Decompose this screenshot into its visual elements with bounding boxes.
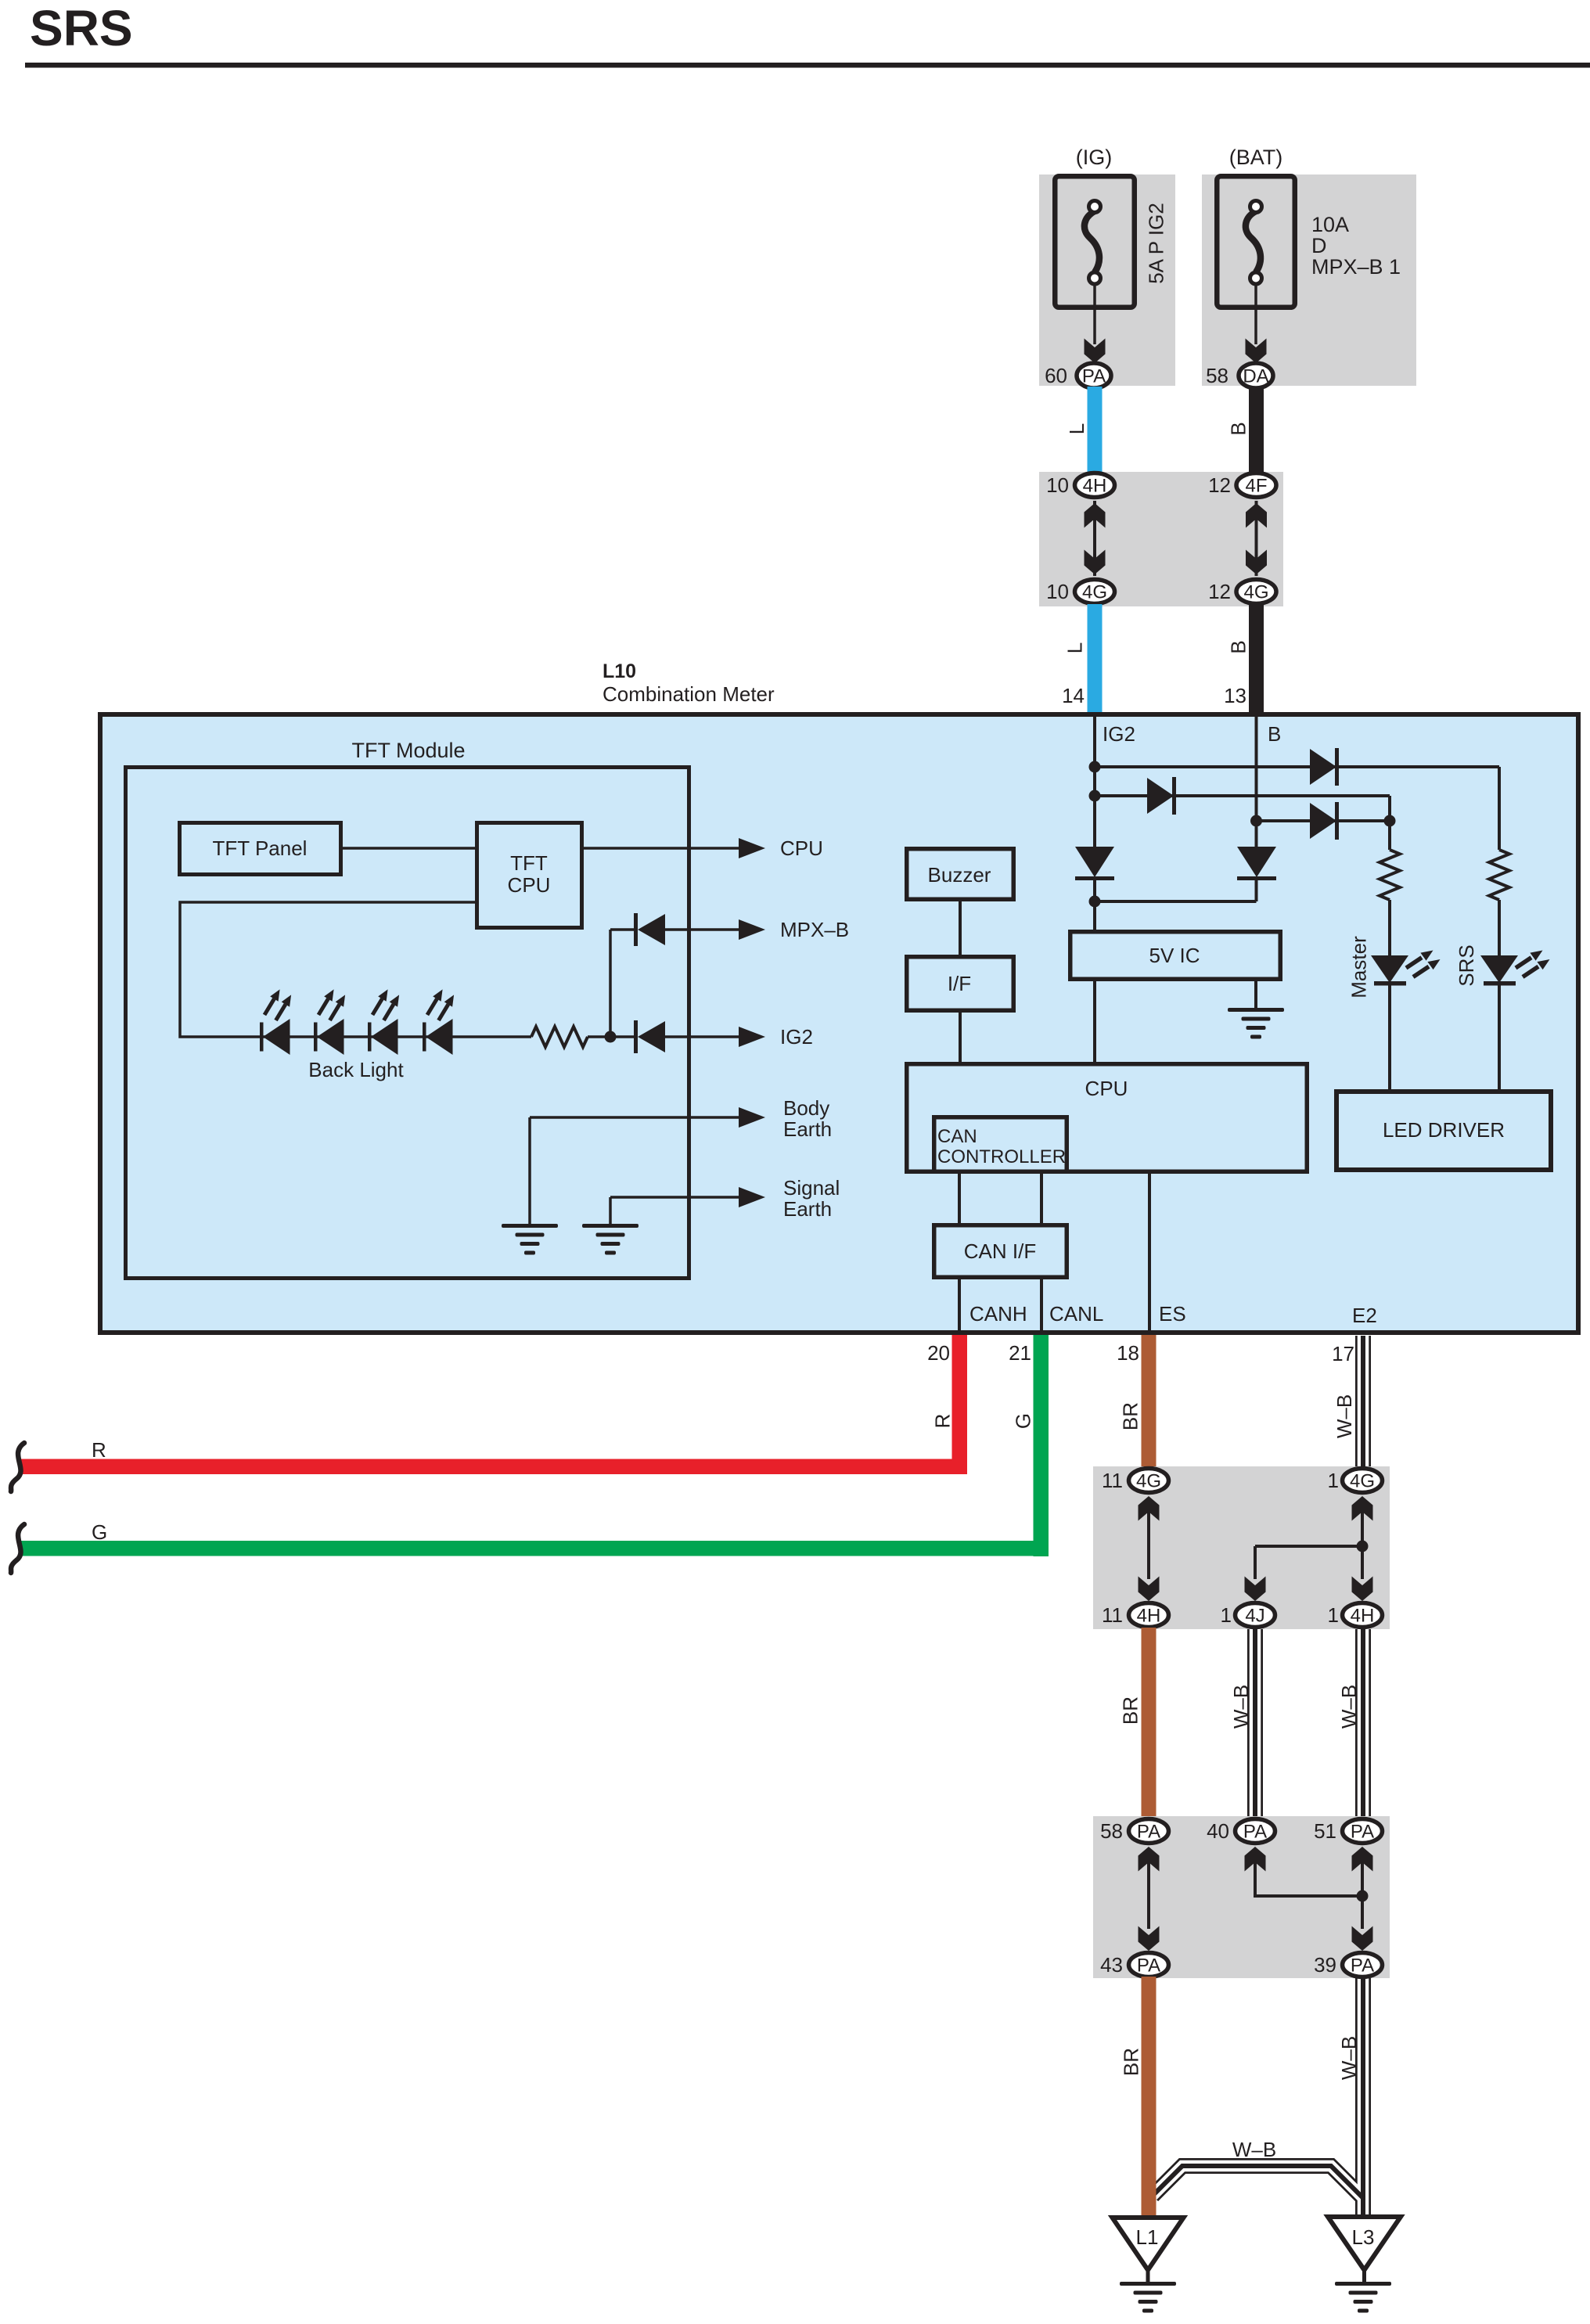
arrow up into 4G left	[1139, 1496, 1160, 1521]
connector 4J	[1236, 1603, 1275, 1628]
diode IG2 rail	[1075, 847, 1114, 877]
svg-text:43: 43	[1100, 1953, 1123, 1977]
svg-text:11: 11	[1102, 1469, 1123, 1492]
branch PA 40	[1255, 1861, 1362, 1896]
backlight LED D3	[368, 1023, 372, 1052]
svg-text:BR: BR	[1120, 2048, 1143, 2076]
wire backlight LED chain	[263, 1035, 531, 1038]
svg-text:1: 1	[1328, 1469, 1339, 1492]
svg-text:21: 21	[1009, 1341, 1031, 1365]
arrow down into 4G right	[1246, 550, 1267, 575]
svg-text:18: 18	[1117, 1341, 1139, 1365]
ground body earth	[502, 1224, 558, 1228]
svg-text:1: 1	[1328, 1603, 1339, 1627]
svg-text:B: B	[1227, 640, 1250, 653]
wire resistor to IG2 diode	[588, 1035, 635, 1038]
svg-text:4H: 4H	[1137, 1606, 1161, 1627]
svg-text:W–B: W–B	[1333, 1394, 1356, 1438]
connector 4G left	[1075, 580, 1115, 604]
svg-text:W–B: W–B	[1232, 2138, 1276, 2161]
node B	[1250, 815, 1262, 827]
svg-text:4F: 4F	[1245, 476, 1267, 497]
svg-text:40: 40	[1207, 1819, 1229, 1843]
buzzer box	[907, 849, 1014, 900]
svg-text:58: 58	[1206, 364, 1228, 387]
wire IG2 internal	[1093, 713, 1096, 850]
svg-text:L1: L1	[1136, 2225, 1159, 2249]
arrow up into 4G right	[1352, 1496, 1373, 1521]
svg-text:12: 12	[1208, 473, 1231, 497]
connector DA	[1239, 363, 1273, 388]
wire IG2 diode to 5V IC	[1093, 880, 1096, 931]
node IG2 upper	[1089, 761, 1101, 773]
diode to MPX-B	[634, 913, 638, 946]
wire BR PA to L1	[1142, 1977, 1157, 2219]
arrow Signal Earth	[739, 1187, 765, 1207]
CPU box	[907, 1064, 1308, 1172]
connector 4G mid-right	[1343, 1469, 1383, 1493]
fuse 5A P IG2	[1055, 176, 1135, 308]
junction node backlight	[605, 1031, 617, 1043]
svg-text:G: G	[92, 1520, 107, 1544]
svg-text:IG2: IG2	[1103, 722, 1135, 746]
ground point L1	[1113, 2218, 1184, 2270]
svg-text:39: 39	[1314, 1953, 1336, 1977]
ground 5V IC	[1228, 1008, 1284, 1012]
connector PA	[1077, 363, 1111, 388]
node W-B branch	[1357, 1541, 1369, 1552]
branch to 4J	[1255, 1545, 1362, 1548]
arrow up into PA 40	[1245, 1847, 1266, 1872]
5V IC box	[1070, 932, 1281, 980]
svg-text:4H: 4H	[1351, 1606, 1375, 1627]
svg-text:TFT: TFT	[510, 851, 548, 875]
wire L (blue) 4G to meter pin 14	[1088, 604, 1103, 712]
backlight resistor	[531, 1027, 588, 1047]
wire buzzer to I/F	[959, 901, 962, 955]
wire node to MPX-B diode	[609, 930, 612, 1037]
svg-text:5A P IG2: 5A P IG2	[1145, 203, 1168, 284]
diode IG2-Master	[1147, 778, 1174, 814]
svg-text:Body: Body	[783, 1096, 829, 1120]
svg-text:BR: BR	[1119, 1402, 1142, 1430]
svg-text:IG2: IG2	[780, 1025, 813, 1049]
title rule	[25, 63, 1590, 68]
svg-text:B: B	[1227, 422, 1250, 435]
wire IG2 to Master branch	[1095, 794, 1390, 797]
svg-text:R: R	[92, 1438, 106, 1462]
resistor Master	[1380, 850, 1400, 900]
svg-text:Master: Master	[1347, 936, 1371, 998]
wire B (black) fuse to 4F	[1249, 387, 1264, 474]
connector PA 43	[1129, 1953, 1169, 1977]
connector PA 40	[1236, 1819, 1275, 1844]
svg-text:Earth: Earth	[783, 1117, 832, 1141]
connector 4G right	[1236, 580, 1276, 604]
link 4H-4G	[1093, 501, 1096, 576]
wire IG2 to SRS branch	[1095, 765, 1499, 768]
svg-text:PA: PA	[1351, 1955, 1374, 1977]
link PA left	[1147, 1861, 1150, 1929]
svg-text:PA: PA	[1082, 366, 1106, 387]
svg-text:CPU: CPU	[508, 873, 551, 897]
node IG2 lower	[1089, 790, 1101, 802]
backlight LED D4	[423, 1023, 426, 1052]
I/F box	[907, 957, 1014, 1011]
svg-text:4G: 4G	[1243, 582, 1268, 603]
connector PA 39	[1343, 1953, 1383, 1977]
wire L (blue) fuse to 4H	[1088, 387, 1103, 474]
svg-text:Signal: Signal	[783, 1176, 840, 1200]
wire Master LED to driver	[1388, 984, 1391, 1091]
svg-text:W–B: W–B	[1229, 1685, 1253, 1729]
wire signal earth	[610, 1196, 740, 1199]
connector 4H	[1075, 473, 1115, 498]
ground point L3	[1328, 2217, 1401, 2270]
svg-text:11: 11	[1102, 1603, 1123, 1627]
wire CANL lower	[1040, 1279, 1043, 1333]
CAN CONTROLLER box	[934, 1117, 1067, 1172]
TFT Module box	[126, 768, 689, 1279]
wire G (green) CANL	[1034, 1335, 1049, 1556]
wire Master resistor to LED	[1388, 900, 1391, 958]
arrow up into PA 51	[1352, 1847, 1373, 1872]
diode B rail	[1237, 847, 1276, 877]
LED Master	[1371, 955, 1408, 983]
svg-text:12: 12	[1208, 580, 1231, 603]
svg-text:51: 51	[1314, 1819, 1336, 1843]
svg-text:13: 13	[1224, 684, 1246, 707]
backlight LED D1	[260, 1023, 264, 1052]
link 4G-4H right	[1361, 1510, 1364, 1579]
svg-text:4G: 4G	[1082, 582, 1107, 603]
svg-text:20: 20	[927, 1341, 950, 1365]
svg-text:CONTROLLER: CONTROLLER	[937, 1146, 1066, 1167]
svg-text:(BAT): (BAT)	[1229, 146, 1283, 169]
svg-text:5V IC: 5V IC	[1149, 944, 1200, 967]
svg-text:4G: 4G	[1350, 1471, 1375, 1492]
LED DRIVER box	[1336, 1092, 1551, 1170]
wire SRS resistor to LED	[1498, 900, 1501, 958]
wire B internal	[1255, 713, 1258, 850]
wire CANH lower	[958, 1279, 961, 1333]
arrow into PA	[1085, 339, 1106, 364]
svg-text:1: 1	[1221, 1603, 1232, 1627]
arrow down into 4G	[1085, 550, 1106, 575]
svg-text:CPU: CPU	[780, 836, 823, 860]
svg-text:CAN: CAN	[937, 1126, 977, 1147]
wire fuse BAT to connector DA	[1254, 284, 1257, 344]
arrow down into 4H left	[1139, 1577, 1160, 1602]
backlight LED D2	[314, 1023, 318, 1052]
arrow up into PA 58	[1139, 1847, 1160, 1872]
svg-text:L3: L3	[1352, 2225, 1375, 2249]
connector 4F	[1236, 473, 1276, 498]
connector 4H mid-right	[1343, 1603, 1383, 1628]
svg-text:60: 60	[1045, 364, 1067, 387]
combination meter box	[100, 714, 1578, 1333]
svg-text:B: B	[1268, 722, 1281, 746]
arrow CPU	[739, 838, 765, 858]
connector gray box PA	[1093, 1816, 1390, 1978]
svg-text:CANL: CANL	[1049, 1302, 1103, 1326]
connector gray box 4G-4H	[1093, 1466, 1390, 1629]
wire 5V IC to ground	[1254, 981, 1257, 1009]
svg-text:58: 58	[1100, 1819, 1123, 1843]
wire W-B white-black segments	[1355, 1336, 1371, 1468]
svg-text:14: 14	[1062, 684, 1085, 707]
link 4F-4G	[1255, 501, 1258, 576]
svg-text:PA: PA	[1351, 1822, 1374, 1843]
link 4G-4H left	[1147, 1510, 1150, 1579]
svg-text:4H: 4H	[1083, 476, 1107, 497]
wire B (black) 4G to meter pin 13	[1249, 604, 1264, 712]
svg-text:W–B: W–B	[1337, 1685, 1361, 1729]
wire B to Master branch	[1257, 819, 1390, 822]
CAN I/F box	[934, 1225, 1067, 1278]
connector PA 58	[1129, 1819, 1169, 1844]
wire fuse IG to connector PA	[1093, 284, 1096, 344]
node Master branch	[1384, 815, 1396, 827]
fuse panel (IG) gray background	[1039, 174, 1175, 386]
connector 4H mid-left	[1129, 1603, 1169, 1628]
break symbol G	[11, 1524, 24, 1573]
svg-text:LED DRIVER: LED DRIVER	[1383, 1118, 1505, 1142]
connector PA 51	[1343, 1819, 1383, 1844]
wire CANL upper	[1040, 1174, 1043, 1223]
svg-text:R: R	[931, 1414, 955, 1429]
wire R (red) CANH	[952, 1335, 968, 1474]
arrow MPX-B	[739, 919, 765, 940]
arrow down into 4H right	[1352, 1577, 1373, 1602]
arrow up into 4H	[1085, 503, 1106, 528]
arrow down into PA 43	[1139, 1926, 1160, 1952]
arrow down into PA 39	[1352, 1926, 1373, 1952]
svg-text:4G: 4G	[1136, 1471, 1161, 1492]
connector 4G mid-left	[1129, 1469, 1169, 1493]
svg-text:10: 10	[1046, 473, 1069, 497]
node IG2-B join	[1089, 896, 1101, 908]
svg-text:PA: PA	[1137, 1822, 1160, 1843]
svg-text:BR: BR	[1119, 1696, 1142, 1725]
resistor SRS	[1489, 850, 1509, 900]
arrow IG2	[739, 1027, 765, 1047]
svg-text:CAN I/F: CAN I/F	[964, 1239, 1036, 1263]
svg-text:17: 17	[1332, 1342, 1354, 1365]
wire 5V IC to CPU	[1093, 981, 1096, 1064]
wire I/F to CPU	[959, 1013, 962, 1064]
svg-text:Back Light: Back Light	[308, 1058, 404, 1081]
break symbol R	[11, 1443, 24, 1491]
wire Master branch	[1388, 821, 1391, 850]
arrow up into 4F	[1246, 503, 1267, 528]
wire B diode join	[1255, 880, 1258, 901]
svg-text:E2: E2	[1352, 1304, 1377, 1327]
svg-text:DA: DA	[1243, 366, 1268, 387]
svg-text:MPX–B: MPX–B	[780, 918, 849, 941]
svg-text:CANH: CANH	[969, 1302, 1027, 1326]
diode to IG2	[634, 1020, 638, 1053]
wire BR (brown) ES to 4G	[1142, 1335, 1157, 1468]
ground signal earth	[582, 1224, 639, 1228]
svg-text:CPU: CPU	[1085, 1077, 1128, 1100]
svg-text:4J: 4J	[1245, 1606, 1264, 1627]
arrow into DA	[1246, 339, 1267, 364]
wire TFT CPU to CPU arrow	[584, 847, 740, 850]
svg-text:ES: ES	[1159, 1302, 1186, 1326]
svg-text:PA: PA	[1243, 1822, 1267, 1843]
diode B-Master	[1310, 803, 1336, 839]
wire TFT Panel to TFT CPU	[343, 847, 475, 850]
fuse 10A D MPX-B 1	[1217, 176, 1295, 308]
arrow down into 4J	[1245, 1577, 1266, 1602]
svg-text:SRS: SRS	[30, 0, 133, 56]
svg-text:Buzzer: Buzzer	[928, 863, 991, 887]
wire BR 4H to PA	[1142, 1628, 1157, 1819]
arrow Body Earth	[739, 1107, 765, 1128]
wire SRS LED to driver	[1498, 984, 1501, 1091]
wire CANH upper	[958, 1174, 961, 1223]
LED SRS	[1480, 955, 1518, 983]
svg-text:(IG): (IG)	[1076, 146, 1113, 169]
svg-text:SRS: SRS	[1455, 944, 1478, 986]
svg-text:I/F: I/F	[948, 972, 971, 995]
diode IG2-SRS	[1310, 749, 1336, 785]
svg-text:L: L	[1063, 642, 1087, 653]
fuse panel (BAT) gray background	[1202, 174, 1416, 386]
node PA branch	[1357, 1890, 1369, 1902]
svg-text:TFT Module: TFT Module	[351, 739, 465, 762]
link PA right	[1361, 1861, 1364, 1929]
wire TFT CPU to backlight	[180, 902, 475, 1037]
TFT CPU box	[477, 823, 582, 928]
wire MPX-B diode to arrow	[665, 928, 740, 931]
svg-text:Earth: Earth	[783, 1197, 832, 1221]
wire ES	[1148, 1174, 1151, 1333]
svg-text:L10: L10	[603, 660, 636, 682]
svg-text:W–B: W–B	[1337, 2036, 1361, 2080]
TFT Panel box	[180, 823, 341, 875]
svg-text:10: 10	[1046, 580, 1069, 603]
svg-text:Combination Meter: Combination Meter	[603, 682, 775, 706]
svg-text:G: G	[1012, 1413, 1035, 1429]
svg-text:L: L	[1065, 423, 1088, 434]
svg-text:TFT Panel: TFT Panel	[213, 836, 308, 860]
wire body earth	[530, 1116, 740, 1119]
svg-text:PA: PA	[1137, 1955, 1160, 1977]
junction connector gray box	[1039, 472, 1283, 606]
wire IG2 diode to arrow	[665, 1035, 740, 1038]
